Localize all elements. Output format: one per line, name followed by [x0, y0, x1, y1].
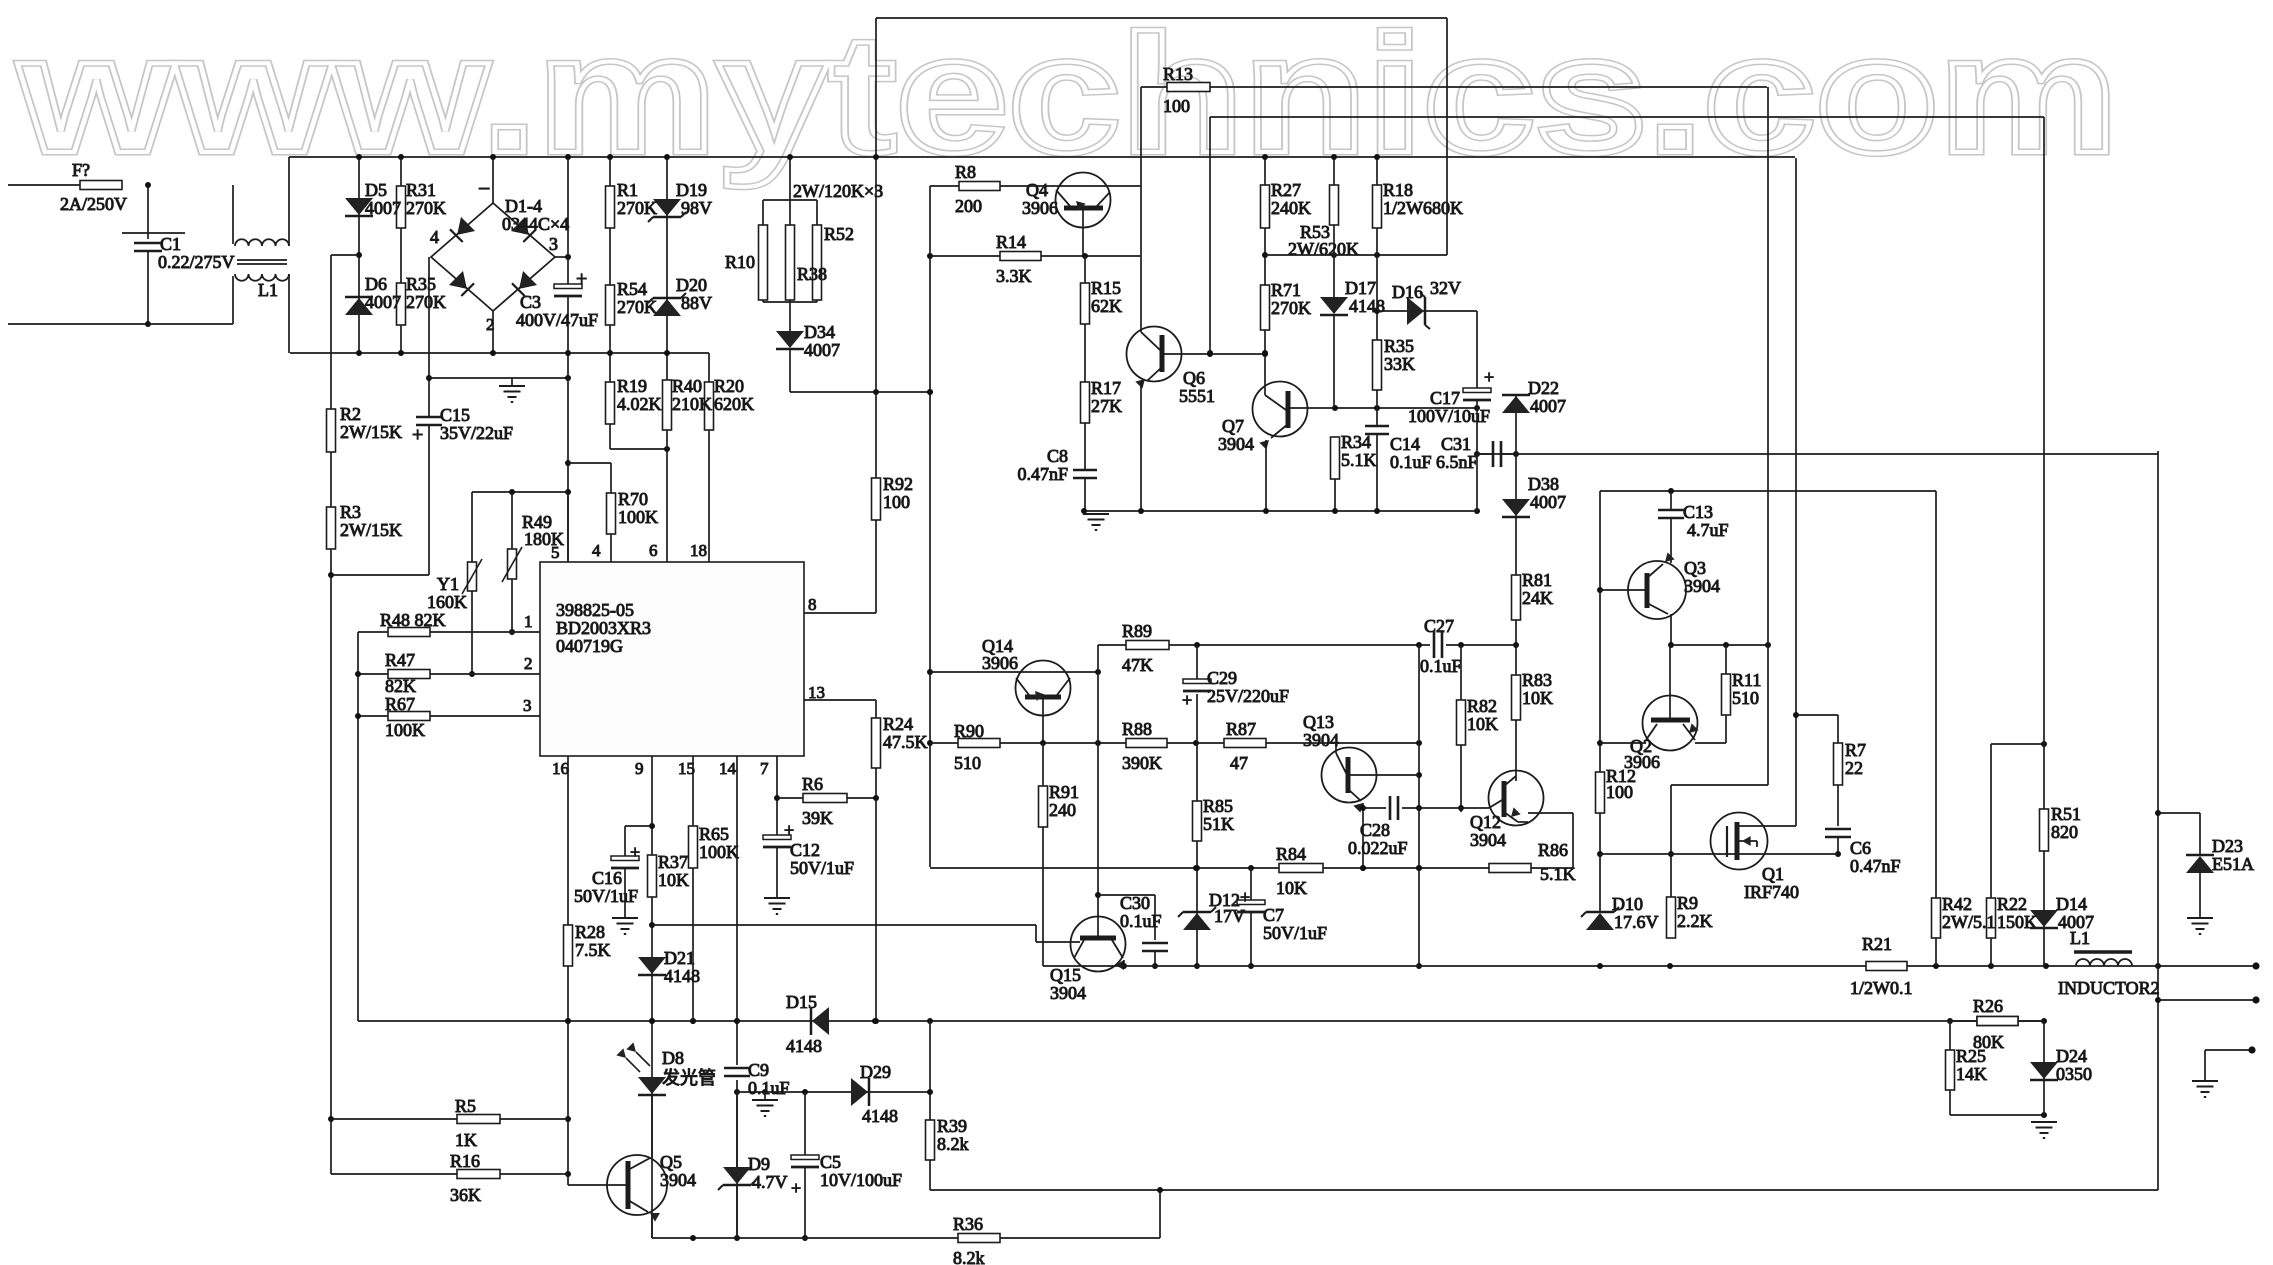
svg-text:R13: R13 [1163, 64, 1193, 84]
svg-text:R18: R18 [1383, 180, 1413, 200]
svg-text:INDUCTOR2: INDUCTOR2 [2058, 978, 2160, 998]
svg-text:27K: 27K [1091, 396, 1122, 416]
svg-text:22: 22 [1845, 758, 1863, 778]
svg-text:Q5: Q5 [660, 1152, 682, 1172]
svg-text:0.1uF: 0.1uF [1390, 452, 1432, 472]
svg-text:D29: D29 [860, 1062, 891, 1082]
svg-text:Q6: Q6 [1183, 368, 1205, 388]
svg-text:3904: 3904 [1050, 983, 1086, 1003]
svg-text:R37: R37 [658, 852, 688, 872]
svg-text:2A/250V: 2A/250V [60, 194, 127, 214]
svg-text:100V/10uF: 100V/10uF [1408, 406, 1490, 426]
svg-text:3906: 3906 [982, 653, 1018, 673]
svg-text:C28: C28 [1360, 820, 1390, 840]
svg-text:50V/1uF: 50V/1uF [574, 886, 638, 906]
svg-text:C17: C17 [1430, 388, 1460, 408]
svg-text:8: 8 [808, 595, 817, 614]
svg-text:100: 100 [1163, 96, 1190, 116]
svg-text:4007: 4007 [365, 292, 401, 312]
svg-text:R87: R87 [1226, 719, 1256, 739]
svg-text:R48 82K: R48 82K [380, 610, 446, 630]
svg-text:1: 1 [524, 612, 533, 631]
svg-text:620K: 620K [714, 394, 754, 414]
svg-text:L1: L1 [2070, 928, 2090, 948]
svg-text:4.7uF: 4.7uF [1687, 520, 1729, 540]
svg-text:7: 7 [760, 759, 769, 778]
svg-text:R11: R11 [1732, 670, 1761, 690]
svg-text:R16: R16 [450, 1151, 480, 1171]
svg-text:R10: R10 [725, 252, 755, 272]
svg-text:D20: D20 [676, 275, 707, 295]
svg-text:0.22/275V: 0.22/275V [158, 252, 235, 272]
svg-text:R88: R88 [1122, 719, 1152, 739]
svg-text:35V/22uF: 35V/22uF [440, 423, 513, 443]
svg-text:IRF740: IRF740 [1744, 882, 1799, 902]
svg-text:R24: R24 [883, 714, 913, 734]
svg-text:C12: C12 [790, 840, 820, 860]
svg-text:2W/15K: 2W/15K [340, 520, 402, 540]
svg-text:D16: D16 [1392, 282, 1423, 302]
svg-text:R22: R22 [1997, 894, 2027, 914]
svg-text:14: 14 [719, 759, 737, 778]
svg-text:10K: 10K [1276, 878, 1307, 898]
svg-text:400V/47uF: 400V/47uF [516, 310, 598, 330]
svg-text:R65: R65 [699, 824, 729, 844]
svg-text:R90: R90 [954, 721, 984, 741]
svg-text:R86: R86 [1538, 840, 1568, 860]
svg-text:15: 15 [678, 759, 695, 778]
svg-text:Y1: Y1 [437, 574, 459, 594]
svg-text:270K: 270K [406, 198, 446, 218]
svg-text:2W/5.1: 2W/5.1 [1942, 912, 1996, 932]
svg-text:0.1uF: 0.1uF [748, 1078, 790, 1098]
svg-text:0.1uF: 0.1uF [1420, 656, 1462, 676]
svg-text:R17: R17 [1091, 378, 1121, 398]
svg-text:4007: 4007 [1530, 396, 1566, 416]
svg-text:6.5nF: 6.5nF [1436, 452, 1478, 472]
svg-text:R7: R7 [1845, 740, 1866, 760]
svg-text:R1: R1 [617, 180, 638, 200]
svg-text:R39: R39 [937, 1116, 967, 1136]
svg-text:3: 3 [523, 696, 532, 715]
svg-text:D1-4: D1-4 [505, 196, 542, 216]
svg-text:R71: R71 [1271, 280, 1301, 300]
svg-text:0.022uF: 0.022uF [1348, 838, 1408, 858]
svg-text:17V: 17V [1214, 906, 1245, 926]
svg-text:C16: C16 [592, 868, 622, 888]
svg-text:R83: R83 [1522, 670, 1552, 690]
svg-text:10K: 10K [1522, 688, 1553, 708]
svg-text:4: 4 [592, 541, 601, 560]
svg-text:10K: 10K [658, 870, 689, 890]
svg-text:C8: C8 [1047, 446, 1068, 466]
svg-text:62K: 62K [1091, 296, 1122, 316]
svg-text:180K: 180K [524, 529, 564, 549]
svg-text:398825-05: 398825-05 [556, 600, 634, 620]
svg-text:C9: C9 [748, 1060, 769, 1080]
svg-text:D9: D9 [748, 1154, 770, 1174]
svg-text:L1: L1 [258, 280, 278, 300]
svg-text:F?: F? [72, 160, 90, 180]
svg-text:4148: 4148 [664, 966, 700, 986]
svg-text:4.7V: 4.7V [752, 1172, 788, 1192]
svg-text:47K: 47K [1122, 655, 1153, 675]
svg-text:R31: R31 [406, 180, 436, 200]
svg-text:+: + [412, 424, 423, 446]
svg-text:040719G: 040719G [556, 636, 623, 656]
svg-text:R36: R36 [953, 1214, 983, 1234]
svg-text:D14: D14 [2056, 894, 2087, 914]
svg-text:+: + [1484, 367, 1494, 387]
svg-text:200: 200 [955, 196, 982, 216]
svg-text:C13: C13 [1683, 502, 1713, 522]
svg-text:C14: C14 [1390, 434, 1420, 454]
svg-text:D22: D22 [1528, 378, 1559, 398]
svg-text:47: 47 [1230, 753, 1248, 773]
svg-text:C6: C6 [1850, 838, 1871, 858]
svg-text:36K: 36K [450, 1185, 481, 1205]
svg-text:R52: R52 [824, 224, 854, 244]
svg-text:50V/1uF: 50V/1uF [1263, 923, 1327, 943]
svg-text:13: 13 [808, 683, 825, 702]
svg-text:1/2W680K: 1/2W680K [1383, 198, 1463, 218]
svg-text:C5: C5 [820, 1152, 841, 1172]
svg-text:C30: C30 [1120, 893, 1150, 913]
svg-text:D38: D38 [1528, 474, 1559, 494]
svg-text:10K: 10K [1467, 714, 1498, 734]
svg-text:820: 820 [2051, 822, 2078, 842]
svg-text:0.47nF: 0.47nF [1850, 856, 1901, 876]
svg-text:BD2003XR3: BD2003XR3 [556, 618, 651, 638]
svg-text:0344C×4: 0344C×4 [502, 214, 569, 234]
svg-text:16: 16 [552, 759, 569, 778]
svg-text:25V/220uF: 25V/220uF [1207, 686, 1289, 706]
svg-text:R8: R8 [955, 162, 976, 182]
svg-text:−: − [478, 176, 490, 201]
svg-text:270K: 270K [406, 292, 446, 312]
svg-text:D15: D15 [786, 992, 817, 1012]
svg-text:2.2K: 2.2K [1677, 911, 1713, 931]
svg-text:3904: 3904 [660, 1170, 696, 1190]
svg-text:+: + [784, 820, 794, 840]
svg-text:510: 510 [1732, 688, 1759, 708]
svg-text:C7: C7 [1263, 905, 1284, 925]
svg-text:14K: 14K [1956, 1064, 1987, 1084]
svg-text:R3: R3 [340, 502, 361, 522]
svg-text:R6: R6 [802, 774, 823, 794]
svg-text:4148: 4148 [1349, 296, 1385, 316]
svg-text:39K: 39K [802, 808, 833, 828]
svg-text:+: + [576, 268, 587, 290]
svg-text:2W/620K: 2W/620K [1288, 239, 1359, 259]
svg-text:2: 2 [486, 315, 495, 334]
svg-text:4.02K: 4.02K [617, 394, 662, 414]
svg-text:R5: R5 [455, 1096, 476, 1116]
svg-text:+: + [791, 1178, 801, 1198]
svg-text:C1: C1 [160, 234, 181, 254]
svg-text:3: 3 [549, 234, 558, 254]
svg-text:D34: D34 [804, 322, 835, 342]
svg-text:24K: 24K [1522, 588, 1553, 608]
svg-text:R84: R84 [1276, 844, 1306, 864]
svg-text:R25: R25 [1956, 1046, 1986, 1066]
svg-text:5.1K: 5.1K [1341, 450, 1377, 470]
svg-text:32V: 32V [1430, 278, 1461, 298]
svg-text:+: + [630, 842, 640, 862]
svg-text:D19: D19 [676, 180, 707, 200]
svg-text:R19: R19 [617, 376, 647, 396]
svg-text:270K: 270K [1271, 298, 1311, 318]
svg-text:D8: D8 [662, 1048, 684, 1068]
svg-text:82K: 82K [385, 676, 416, 696]
svg-text:R35: R35 [406, 274, 436, 294]
svg-text:R35: R35 [1384, 336, 1414, 356]
svg-text:C29: C29 [1207, 668, 1237, 688]
svg-text:R34: R34 [1341, 432, 1371, 452]
svg-text:3904: 3904 [1684, 576, 1720, 596]
svg-text:3904: 3904 [1303, 730, 1339, 750]
svg-text:R54: R54 [617, 279, 647, 299]
svg-text:Q4: Q4 [1026, 180, 1048, 200]
svg-text:8.2k: 8.2k [953, 1248, 985, 1265]
svg-text:R47: R47 [385, 650, 415, 670]
svg-text:R2: R2 [340, 404, 361, 424]
svg-text:160K: 160K [427, 592, 467, 612]
svg-text:5551: 5551 [1179, 386, 1215, 406]
svg-text:17.6V: 17.6V [1614, 912, 1659, 932]
svg-text:210K: 210K [672, 394, 712, 414]
svg-text:1K: 1K [455, 1130, 477, 1150]
svg-text:R9: R9 [1677, 893, 1698, 913]
svg-text:47.5K: 47.5K [883, 732, 928, 752]
svg-text:Q1: Q1 [1762, 864, 1784, 884]
svg-text:98V: 98V [681, 198, 712, 218]
svg-text:390K: 390K [1122, 753, 1162, 773]
svg-text:R27: R27 [1271, 180, 1301, 200]
svg-text:R20: R20 [714, 376, 744, 396]
svg-text:E51A: E51A [2212, 854, 2254, 874]
svg-text:R91: R91 [1049, 782, 1079, 802]
svg-text:240K: 240K [1271, 198, 1311, 218]
svg-text:D5: D5 [365, 180, 387, 200]
svg-text:33K: 33K [1384, 354, 1415, 374]
svg-text:R85: R85 [1203, 796, 1233, 816]
svg-text:C3: C3 [520, 292, 541, 312]
svg-text:4148: 4148 [862, 1106, 898, 1126]
svg-text:D17: D17 [1345, 278, 1376, 298]
svg-text:D6: D6 [365, 274, 387, 294]
svg-text:3904: 3904 [1218, 434, 1254, 454]
svg-text:4148: 4148 [786, 1036, 822, 1056]
svg-text:Q7: Q7 [1222, 416, 1244, 436]
svg-text:240: 240 [1049, 800, 1076, 820]
svg-text:www.mytechnics.com: www.mytechnics.com [17, 0, 2118, 188]
svg-text:100K: 100K [385, 720, 425, 740]
svg-text:D21: D21 [664, 948, 695, 968]
svg-text:100K: 100K [699, 842, 739, 862]
svg-text:Q13: Q13 [1303, 712, 1334, 732]
svg-text:51K: 51K [1203, 814, 1234, 834]
svg-text:2W/15K: 2W/15K [340, 422, 402, 442]
svg-text:10V/100uF: 10V/100uF [820, 1170, 902, 1190]
svg-text:C27: C27 [1424, 616, 1454, 636]
svg-text:D23: D23 [2212, 836, 2243, 856]
svg-text:R28: R28 [575, 922, 605, 942]
svg-text:100: 100 [1606, 782, 1633, 802]
svg-text:Q12: Q12 [1470, 812, 1501, 832]
svg-text:R89: R89 [1122, 621, 1152, 641]
svg-text:R67: R67 [385, 694, 415, 714]
svg-text:D24: D24 [2056, 1046, 2087, 1066]
svg-text:1/2W0.1: 1/2W0.1 [1850, 978, 1913, 998]
svg-text:C31: C31 [1441, 434, 1471, 454]
svg-text:9: 9 [635, 759, 644, 778]
svg-text:R38: R38 [797, 264, 827, 284]
svg-text:R81: R81 [1522, 570, 1552, 590]
svg-text:R42: R42 [1942, 894, 1972, 914]
svg-text:50V/1uF: 50V/1uF [790, 858, 854, 878]
svg-text:270K: 270K [617, 198, 657, 218]
svg-text:2: 2 [524, 654, 533, 673]
svg-text:8.2k: 8.2k [937, 1134, 969, 1154]
svg-text:3906: 3906 [1022, 198, 1058, 218]
svg-text:D10: D10 [1612, 894, 1643, 914]
svg-text:R40: R40 [672, 376, 702, 396]
svg-text:+: + [1240, 887, 1250, 907]
svg-text:4007: 4007 [365, 198, 401, 218]
svg-text:510: 510 [954, 753, 981, 773]
svg-text:0.1uF: 0.1uF [1120, 911, 1162, 931]
svg-text:C15: C15 [440, 405, 470, 425]
svg-text:R14: R14 [996, 232, 1026, 252]
svg-text:R82: R82 [1467, 696, 1497, 716]
svg-text:4007: 4007 [804, 340, 840, 360]
svg-text:Q15: Q15 [1050, 965, 1081, 985]
svg-text:18: 18 [690, 541, 707, 560]
svg-text:3904: 3904 [1470, 830, 1506, 850]
svg-text:2W/120K×3: 2W/120K×3 [793, 181, 883, 201]
svg-text:150K: 150K [1997, 912, 2037, 932]
svg-text:R70: R70 [618, 489, 648, 509]
svg-text:3.3K: 3.3K [996, 266, 1032, 286]
svg-text:R26: R26 [1973, 996, 2003, 1016]
svg-text:4: 4 [430, 227, 439, 247]
svg-text:4007: 4007 [1530, 492, 1566, 512]
svg-text:0350: 0350 [2056, 1064, 2092, 1084]
svg-text:R15: R15 [1091, 278, 1121, 298]
svg-text:100: 100 [883, 492, 910, 512]
svg-text:0.47nF: 0.47nF [1017, 464, 1068, 484]
svg-text:发光管: 发光管 [662, 1068, 716, 1088]
svg-text:3906: 3906 [1624, 752, 1660, 772]
svg-text:6: 6 [649, 541, 658, 560]
svg-text:Q3: Q3 [1684, 558, 1706, 578]
svg-text:7.5K: 7.5K [575, 940, 611, 960]
svg-text:+: + [1182, 690, 1192, 710]
svg-text:100K: 100K [618, 507, 658, 527]
svg-text:R21: R21 [1862, 934, 1892, 954]
svg-text:270K: 270K [617, 297, 657, 317]
svg-text:88V: 88V [681, 293, 712, 313]
svg-text:R51: R51 [2051, 804, 2081, 824]
svg-text:R92: R92 [883, 474, 913, 494]
svg-text:5.1K: 5.1K [1540, 864, 1576, 884]
